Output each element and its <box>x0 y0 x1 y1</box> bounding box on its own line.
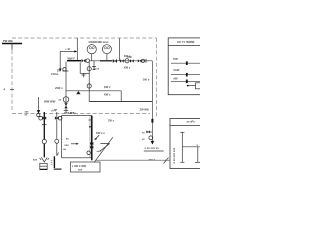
svg-text:ZW WB: ZW WB <box>140 108 149 112</box>
svg-text:+ B: + B <box>65 47 71 51</box>
svg-text:KW x: KW x <box>124 66 131 69</box>
svg-text:KW x: KW x <box>104 85 111 89</box>
svg-text:KW x: KW x <box>124 55 131 58</box>
svg-text:xxx x: xxx x <box>149 158 156 161</box>
svg-text:xxx: xxx <box>33 159 38 162</box>
svg-text:x xx xxx xx: x xx xxx xx <box>145 147 160 150</box>
svg-text:PW: PW <box>173 57 178 61</box>
svg-text:xx xPx: xx xPx <box>187 119 196 123</box>
svg-text:AW: AW <box>173 77 178 81</box>
svg-text:GWB/GWB xxxx: GWB/GWB xxxx <box>89 40 109 44</box>
svg-text:xxx: xxx <box>64 144 69 147</box>
svg-text:x AW C WW: x AW C WW <box>72 165 87 168</box>
svg-text:x xx xxx xxx: x xx xxx xxx <box>173 147 176 163</box>
svg-text:xWZ x: xWZ x <box>55 86 63 90</box>
svg-text:WW WW: WW WW <box>44 100 56 104</box>
svg-text:Z10xx: Z10xx <box>51 72 59 76</box>
svg-text:OK x: OK x <box>143 77 150 81</box>
svg-text:KW x-x: KW x-x <box>96 131 105 135</box>
svg-text:xxx: xxx <box>78 169 83 172</box>
svg-text:ZW x: ZW x <box>108 120 115 123</box>
svg-text:WW F: WW F <box>68 56 76 60</box>
svg-text:x xx: x xx <box>95 68 100 70</box>
svg-text:VGW: VGW <box>173 69 180 72</box>
svg-text:m 4: m 4 <box>52 109 57 112</box>
svg-text:KW x: KW x <box>104 93 111 97</box>
svg-text:XX YY WWW: XX YY WWW <box>177 40 195 44</box>
svg-text:PW WB: PW WB <box>3 39 13 43</box>
svg-text:W 4x: W 4x <box>70 112 76 115</box>
